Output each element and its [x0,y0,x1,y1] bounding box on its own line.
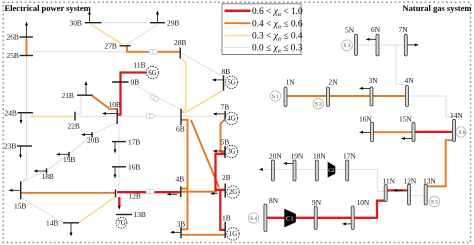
bus 10B [109,100,121,124]
svg-text:12B: 12B [129,192,141,201]
bus 22B [68,112,80,131]
node 12N [404,176,417,205]
compressor C2 [328,162,336,178]
wire 30B-27B yellow [91,25,123,45]
load arrow 7N right [408,43,419,46]
source S2 [313,99,323,109]
svg-text:7B: 7B [221,103,230,112]
wire 15B-12B orange [21,192,116,194]
transformer 12B-4B [146,189,154,194]
svg-text:23B: 23B [4,142,16,151]
svg-text:5N: 5N [345,26,355,35]
load arrow 4B-2B line [167,193,177,196]
wire 11B-6G red [121,71,147,73]
load arrow 16N [359,131,371,134]
svg-text:5G: 5G [227,80,235,87]
wire 5B-2B red [216,154,226,190]
svg-text:3B: 3B [177,219,186,228]
svg-text:1G: 1G [229,231,237,238]
svg-text:3N: 3N [369,76,379,85]
load arrow 2B [210,192,217,195]
load arrowhead 20N [259,168,263,171]
svg-text:9N: 9N [312,198,322,207]
svg-text:S 6: S 6 [459,130,466,136]
svg-text:7N: 7N [399,25,409,34]
svg-text:14N: 14N [450,111,463,120]
load arrow 16B down [114,167,117,178]
node 7N [399,25,409,56]
svg-text:11N: 11N [383,176,396,185]
svg-text:4N: 4N [405,76,415,85]
bus 11B [134,61,146,70]
wire 10B-17B-16B-12B vertical [118,124,120,191]
svg-text:26B: 26B [7,33,19,42]
load arrowhead 12B-13B [118,206,121,210]
wire 29B-27B [127,25,158,45]
transformer 9B-6B [151,95,159,101]
pipe 7N-4N [396,45,407,84]
svg-text:C1: C1 [286,215,294,222]
svg-text:0.6 < χα < 1.0: 0.6 < χα < 1.0 [252,7,303,18]
svg-text:20B: 20B [87,135,99,144]
pipe 14N-13N orange [428,140,455,186]
load arrow 6N [366,38,376,41]
generator 5G [225,76,237,88]
source S6 [456,127,466,137]
svg-text:27B: 27B [105,41,117,50]
load arrow 3B [170,231,181,234]
load arrow 20B [81,133,92,136]
legend box [222,4,303,55]
svg-text:10B: 10B [109,100,121,109]
bus 17B [112,137,140,146]
wire 6B-4B orange [181,120,188,230]
bus 18B [42,168,54,181]
svg-text:8B: 8B [222,67,231,76]
svg-text:19B: 19B [63,155,75,164]
bus 16B [112,163,140,172]
wire 25B-27B [33,51,127,53]
load arrow 8B [212,78,224,81]
bus 25B [7,51,34,60]
wire 6B-2B orange diagonal [191,120,219,188]
bus 28B [174,38,186,59]
node 17N [343,151,356,181]
pipe 15N-14N red [414,131,455,133]
load arrow 5B [213,150,225,153]
wire 28B-6B yellow [180,58,186,112]
svg-text:17N: 17N [343,151,356,160]
bus 1B [222,214,231,238]
wire 26B-25B orange [26,37,28,56]
svg-text:2N: 2N [329,77,339,86]
transformer 27B-28B [149,49,157,54]
wire 15B-18B-19B-20B-10B diagonal [22,122,117,182]
svg-text:4B: 4B [176,175,185,184]
node 2N [327,77,339,106]
svg-text:11B: 11B [134,61,146,70]
wire 21B-10B orange [92,96,117,109]
svg-text:29B: 29B [167,18,179,27]
node 1N [284,77,295,106]
svg-text:0.3 < χα ≤ 0.4: 0.3 < χα ≤ 0.4 [252,32,303,43]
bus 20B [87,132,99,144]
svg-text:8N: 8N [269,196,279,205]
bus 12B [116,189,141,200]
wire 24B-22B yellow [30,115,75,117]
pipe 8N-C1 red [265,217,284,219]
svg-text:25B: 25B [7,51,19,60]
node 13N [423,176,436,205]
pipe 16N-15N orange [372,131,414,133]
wire 27B-28B orange [127,46,180,52]
svg-text:16B: 16B [128,163,140,172]
generator 7G [116,217,127,228]
node 8N [264,196,279,231]
wire 8B-6B yellow [181,90,224,112]
node 10N [351,198,370,230]
load arrow 17B down [114,142,117,153]
bus 13B [116,210,146,219]
bus 14B [46,219,79,228]
bus 6B [176,109,185,134]
wire 28B-8B [180,52,223,77]
svg-text:2G: 2G [229,189,237,196]
bus 3B [177,219,186,238]
generator 6G [146,66,158,78]
bus 4B [176,175,185,198]
node 3N [369,76,379,106]
bus 8B [222,67,231,90]
node 5N [345,26,358,56]
bus 2B [222,173,231,198]
load arrow 30B up [88,11,91,23]
wire 12B-4B red [117,191,181,193]
wire 12B-13B red stub [118,197,120,206]
load arrow 18B [34,170,47,173]
wire 14B-12B yellow [79,197,116,223]
bus 27B [105,41,131,50]
svg-text:4G: 4G [227,116,235,123]
svg-text:0.0 ≤ χα ≤ 0.3: 0.0 ≤ χα ≤ 0.3 [252,44,303,55]
pipe 4N-14N [407,96,454,117]
load arrow 24B down [20,113,23,124]
svg-text:S 4: S 4 [250,216,257,222]
svg-text:0.4 < χα ≤ 0.6: 0.4 < χα ≤ 0.6 [252,19,303,30]
transformer 10B-6B [146,114,154,119]
svg-text:24B: 24B [5,108,17,117]
svg-text:30B: 30B [70,18,82,27]
wire 3B-1B orange [181,234,225,236]
bus 15B [14,181,26,210]
node 11N [383,176,396,201]
bus 24B [5,108,33,117]
node 15N [399,115,415,142]
wire 30B-29B [102,22,151,24]
svg-text:13B: 13B [134,210,146,219]
svg-text:9B: 9B [131,78,140,87]
svg-text:15N: 15N [399,115,412,124]
bus 5B [221,138,230,158]
load arrow 21B up [85,81,88,95]
bus 7B [221,103,230,120]
svg-text:12N: 12N [404,176,417,185]
load arrow 14B down [70,223,73,236]
node 20N [269,151,282,181]
generator 2G [227,186,239,198]
wire 7B-5B orange [221,119,226,154]
svg-text:18N: 18N [313,151,326,160]
node 6N [371,25,381,56]
svg-text:28B: 28B [174,38,186,47]
svg-text:14B: 14B [46,219,58,228]
svg-text:10N: 10N [357,198,370,207]
load arrow 3N [359,87,370,90]
svg-text:2B: 2B [222,173,231,182]
wire 21B-22B [75,95,81,114]
svg-text:Natural gas system: Natural gas system [403,3,472,13]
wire 15B-14B [22,198,64,223]
load arrow 7B [213,112,225,115]
source S1 [270,91,280,101]
source S3 [342,40,353,51]
svg-text:13N: 13N [423,176,436,185]
wire 24B jog [29,113,33,117]
bus 26B [7,33,34,42]
load arrow 10B [102,112,117,115]
bus 19B [63,152,75,164]
source S5 [429,196,439,206]
bus 23B [4,142,32,151]
pipe 5N-6N-7N [356,44,406,46]
node 9N [312,198,322,230]
node 4N [405,76,415,107]
wire 11B-9B-10B red [117,71,120,114]
pipe 20N-19N-18N-17N gray and corner to 11N [261,169,386,191]
pipe 11N-12N red [386,189,409,191]
svg-text:1B: 1B [222,214,231,223]
svg-text:20N: 20N [269,151,282,160]
pipe 12N-13N gray [409,195,426,197]
node 14N [450,111,463,141]
svg-text:C2: C2 [328,168,335,174]
load arrow 29B up [156,11,159,23]
svg-text:3G: 3G [227,149,235,156]
wire 9B-6B [129,82,182,110]
svg-text:6G: 6G [148,70,156,77]
svg-text:15B: 15B [14,201,26,210]
bus 21B [62,91,93,100]
svg-text:17B: 17B [128,137,140,146]
svg-text:S 2: S 2 [315,102,322,108]
svg-text:S 5: S 5 [431,199,438,205]
generator 1G [227,228,239,240]
node 18N [313,151,326,181]
svg-text:5B: 5B [221,138,230,147]
wire 2B-1B red [220,191,225,230]
pipe C1-9N-10N-11N red [296,201,386,218]
node 19N [291,151,304,181]
bus 29B [150,18,179,27]
load arrow 19B [56,153,69,156]
source S4 [248,213,258,223]
svg-text:6N: 6N [371,25,381,34]
pipe 1N-2N-3N-4N orange [286,95,408,97]
load arrow 10N [342,222,351,225]
svg-text:19N: 19N [291,151,304,160]
node 16N [359,115,374,142]
wire 25B-24B-23B-15B gray vertical [21,56,27,183]
load arrow 12N on line [393,189,403,192]
load arrow 23B down [19,147,22,159]
svg-text:Electrical power system: Electrical power system [5,3,91,13]
compressor C1 [284,209,296,228]
svg-text:6B: 6B [176,124,185,133]
wire 22B-10B-6B-7B horizontal [75,115,225,117]
svg-text:16N: 16N [359,115,372,124]
svg-text:18B: 18B [42,172,54,181]
svg-text:S 1: S 1 [272,94,279,100]
load arrow 15N [401,137,412,140]
wire 4B-3B orange [181,188,188,190]
generator 4G [225,112,237,124]
svg-text:7G: 7G [117,220,125,227]
svg-text:S 3: S 3 [344,43,351,49]
load arrow 19N [283,162,293,165]
bus 30B [70,18,102,27]
wire 4B-2B orange [181,191,217,193]
load arrow 15B [9,189,21,192]
load arrow 26B up [25,22,28,37]
svg-text:21B: 21B [62,91,74,100]
bus 9B [112,78,139,87]
svg-text:1N: 1N [286,77,296,86]
svg-text:22B: 22B [68,122,80,131]
generator 3G [225,145,237,157]
